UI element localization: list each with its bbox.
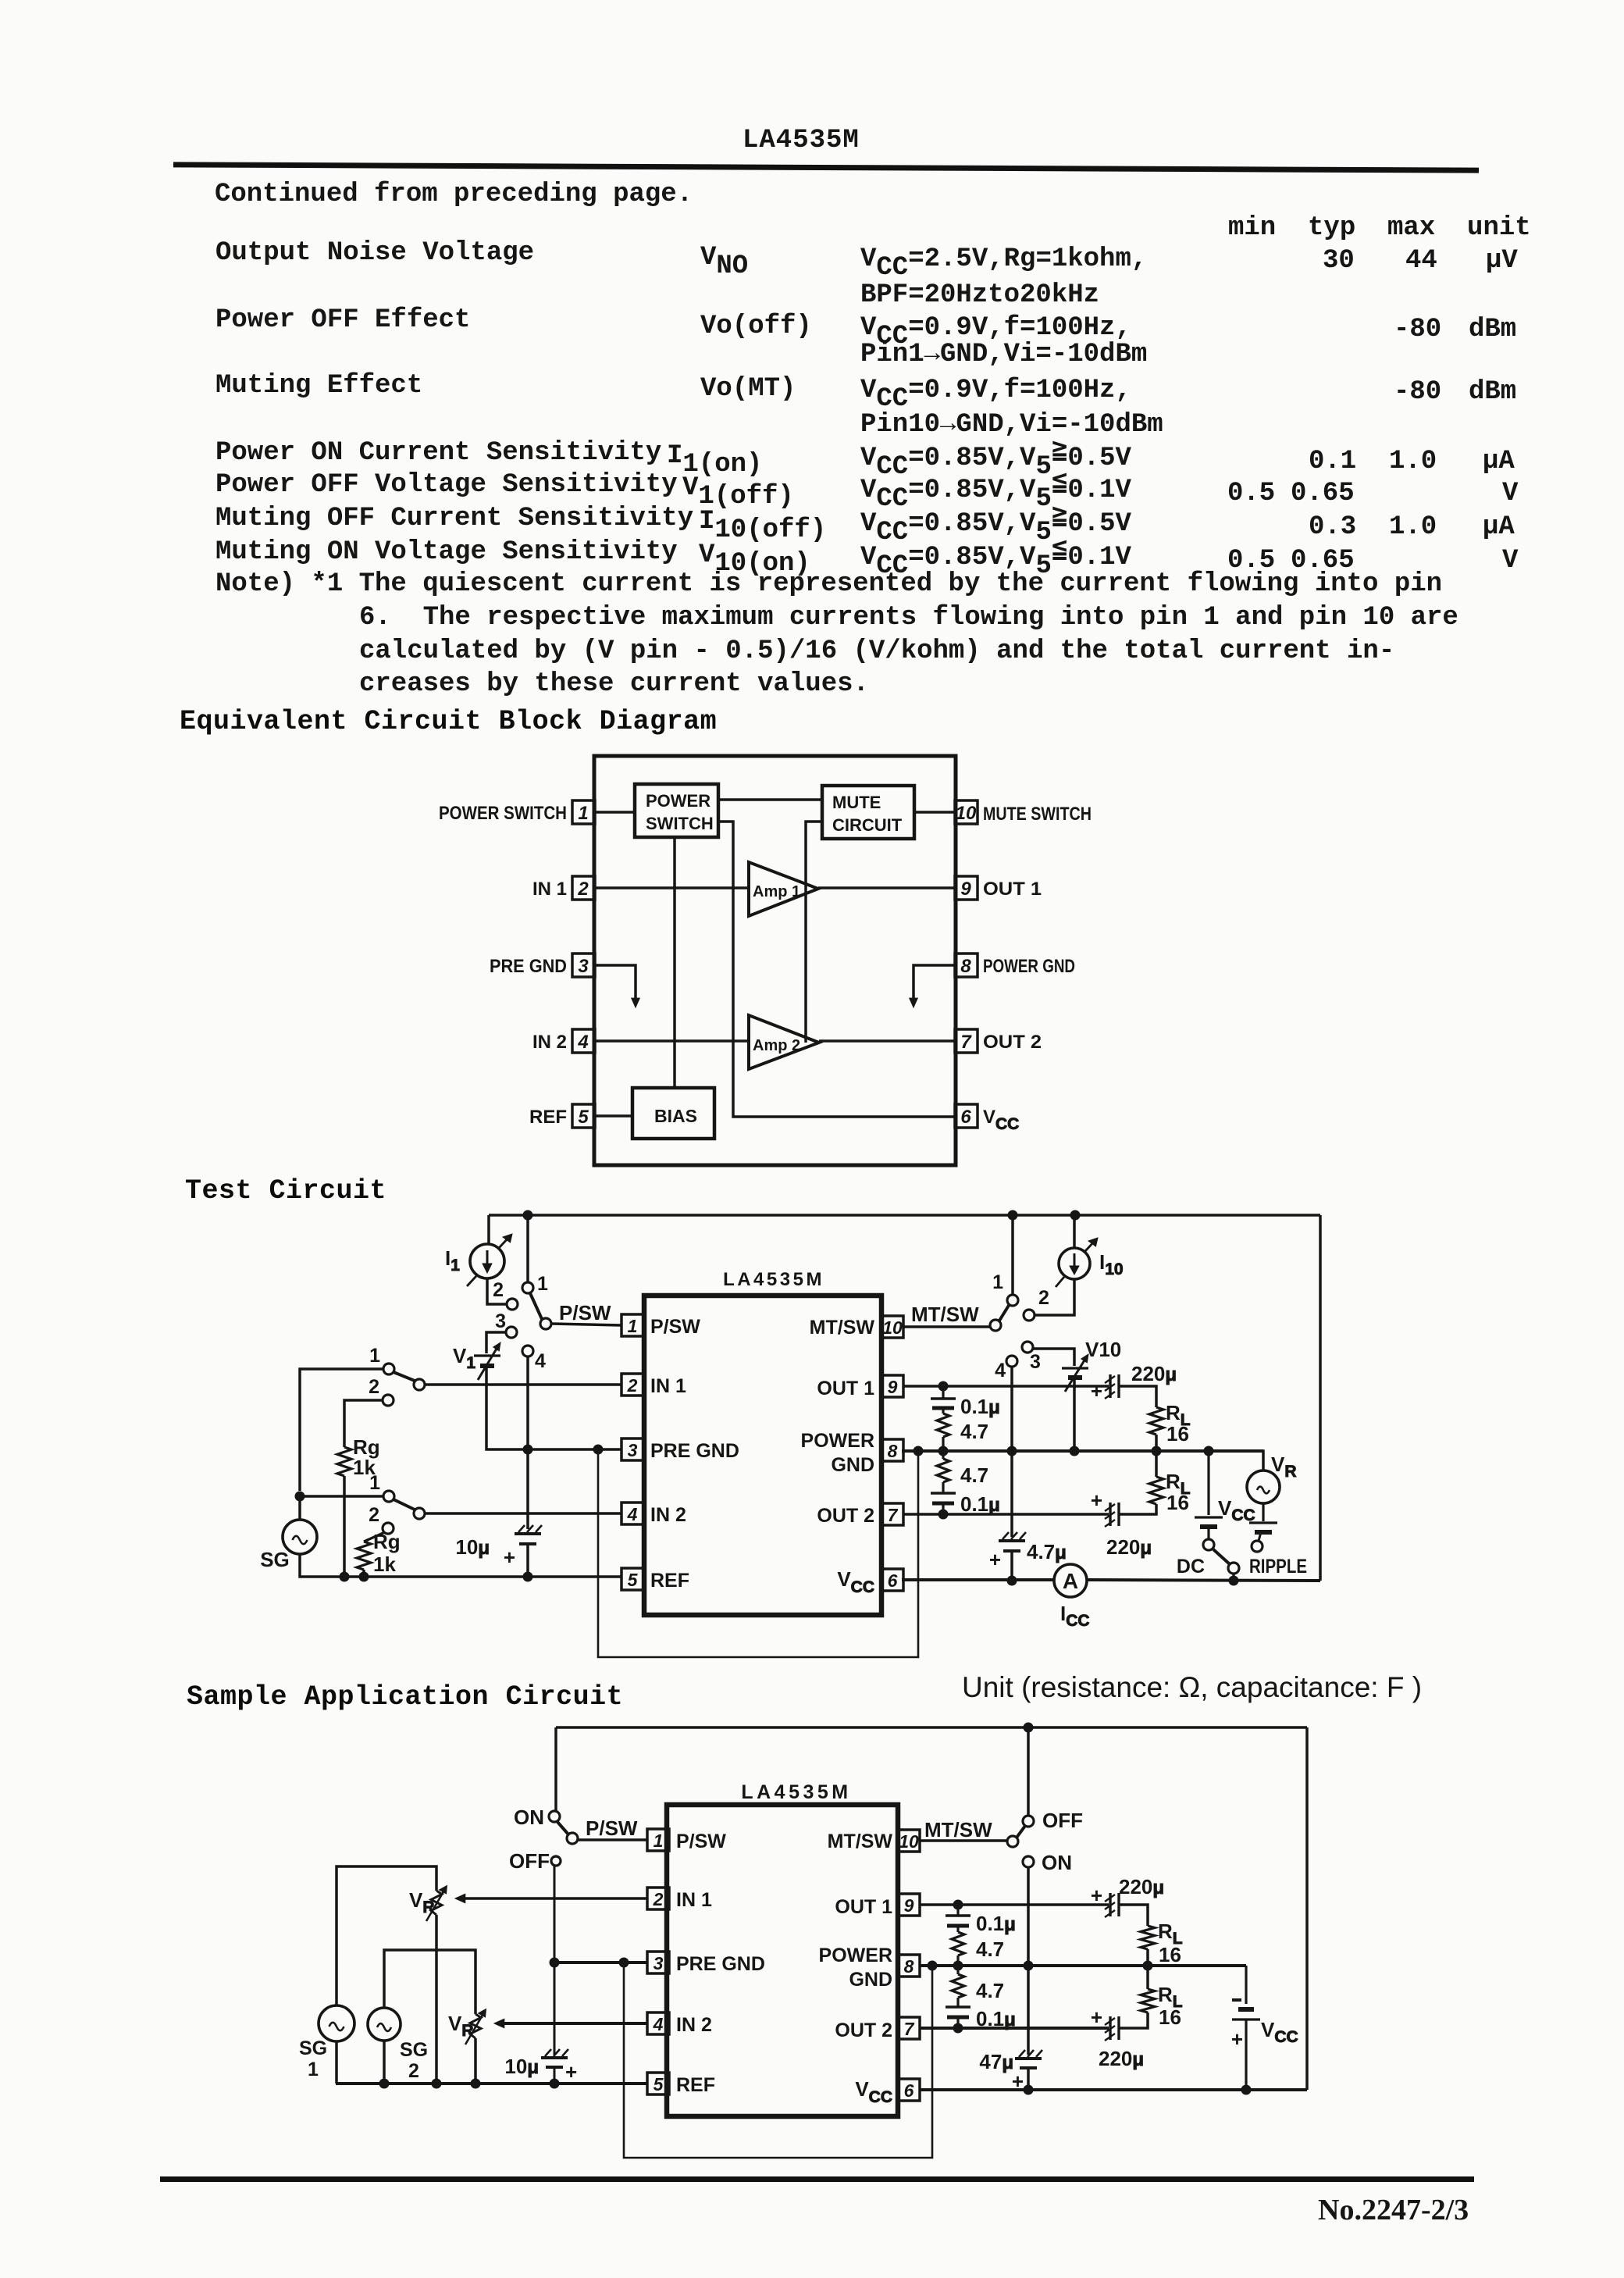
pin 2 — [572, 876, 595, 900]
svg-text:4: 4 — [653, 2014, 664, 2034]
svg-text:OFF: OFF — [1042, 1809, 1083, 1832]
svg-text:+: + — [1231, 2027, 1243, 2051]
wire POWER SWITCH to Vcc line — [718, 822, 956, 1117]
pin 5 REF — [647, 2073, 715, 2096]
potentiometer VR1 — [426, 1886, 447, 1922]
junction — [1152, 1446, 1161, 1456]
pin 2 IN 1 — [647, 1888, 712, 1911]
wire Rg to rail — [343, 1476, 346, 1577]
junction — [1204, 1446, 1213, 1456]
pin 7 — [881, 1503, 903, 1525]
junction — [913, 1446, 923, 1456]
resistor 4.7 — [952, 1926, 1004, 1966]
svg-text:IN 1: IN 1 — [676, 1889, 712, 1911]
wire cap to RL1 — [1119, 1905, 1148, 1926]
wire RL1 to POWER GND — [1146, 1949, 1149, 1966]
wire junction to SG — [298, 1496, 301, 1520]
wire right rail — [1305, 1727, 1309, 2090]
svg-text:10μ: 10μ — [504, 2055, 539, 2078]
junction — [432, 2079, 441, 2088]
junction — [1024, 2085, 1033, 2094]
wire OUT1 — [920, 1903, 1109, 1906]
ground arrow pin8 — [910, 965, 956, 1007]
wire POWER SWITCH to BIAS — [673, 837, 676, 1088]
capacitor 220u lower — [1091, 1488, 1152, 1559]
junction — [359, 1572, 369, 1581]
terminal ON — [549, 1811, 560, 1822]
switch terminal 2 — [1024, 1310, 1035, 1321]
capacitor 10u — [504, 2049, 577, 2084]
svg-text:MT/SW: MT/SW — [828, 1831, 893, 1852]
resistor Rg 1k — [337, 1435, 380, 1479]
wire pin1 to POWER SWITCH — [594, 811, 635, 814]
wire battery to VCC rail — [1245, 2020, 1247, 2090]
capacitor 220u lower — [1091, 2005, 1144, 2070]
wire RL to POWER GND — [1155, 1435, 1158, 1451]
svg-text:1: 1 — [654, 1831, 664, 1851]
svg-text:P/SW: P/SW — [676, 1831, 726, 1852]
pin 8 — [881, 1439, 903, 1461]
wire ON down — [1027, 1867, 1030, 2055]
svg-text:OFF: OFF — [509, 1849, 550, 1873]
switch SW1 terminal 2 — [383, 1395, 394, 1406]
wire POWER GND to battery — [1245, 1966, 1247, 2004]
svg-text:+: + — [565, 2060, 577, 2084]
ground arrow pin3 — [594, 965, 639, 1007]
source SG — [283, 1520, 317, 1554]
junction — [619, 1958, 629, 1967]
resistor 4.7 lower — [952, 1966, 1004, 2002]
wire pin4 to Amp2 — [594, 1039, 749, 1043]
pin 1 — [572, 800, 595, 824]
resistor 4.7 lower — [937, 1451, 988, 1487]
wire pin10 to MT/SW — [903, 1325, 990, 1328]
wire VR1 to REF — [435, 1915, 438, 2084]
junction — [550, 1958, 559, 1967]
wire terminal1 to junction — [300, 1495, 383, 1498]
resistor RL2 16 — [1149, 1470, 1191, 1514]
wire SG1 bottom — [335, 2041, 338, 2084]
resistor Rg2 1k — [357, 1530, 401, 1576]
wire pin10 to MT/SW — [920, 1839, 1007, 1842]
meter I1 — [467, 1234, 512, 1286]
pin 2 IN 1 — [621, 1374, 686, 1397]
wire MUTE CIRCUIT to pin10 — [914, 811, 956, 814]
svg-text:REF: REF — [676, 2074, 715, 2096]
svg-text:7: 7 — [904, 2019, 915, 2039]
pin 4 — [572, 1029, 595, 1053]
wire terminal1 to rail — [526, 1215, 529, 1282]
op-amp Amp 2 — [749, 1015, 819, 1069]
junction — [1008, 1210, 1017, 1220]
wire switch to VCC rail — [1232, 1574, 1234, 1581]
svg-text:5: 5 — [654, 2074, 664, 2094]
wire OUT2 — [920, 2027, 1109, 2030]
svg-text:2: 2 — [653, 1889, 664, 1909]
svg-text:1: 1 — [308, 2059, 319, 2080]
wire RL2 to POWER GND — [1155, 1451, 1158, 1477]
pin 1 P/SW — [621, 1314, 700, 1338]
junction — [1070, 1446, 1079, 1456]
pin 3 — [572, 954, 595, 977]
wire right rail — [1319, 1215, 1322, 1581]
pin 4 IN 2 — [647, 2012, 712, 2036]
wire terminal4 down — [526, 1356, 529, 1529]
svg-text:OUT 2: OUT 2 — [835, 2020, 892, 2041]
wire terminal4 down — [1010, 1367, 1013, 1537]
pin 7 — [955, 1029, 978, 1053]
junction — [953, 1900, 963, 1909]
source SG2 — [368, 2008, 401, 2041]
wire SG2 bottom — [383, 2041, 386, 2084]
pin 5 REF — [621, 1568, 689, 1592]
svg-text:4.7: 4.7 — [976, 1938, 1004, 1961]
svg-text:+: + — [1091, 1884, 1102, 1907]
wire under-IC loop — [624, 1963, 932, 2158]
block MUTE CIRCUIT — [822, 786, 914, 839]
pin 8 — [955, 954, 978, 977]
IC U1 LA4535M — [644, 1296, 881, 1615]
pin 6 — [881, 1569, 903, 1591]
svg-text:+: + — [1091, 2005, 1102, 2029]
wire common to pin1 — [578, 1838, 647, 1841]
svg-text:220μ: 220μ — [1119, 1875, 1164, 1898]
wire top rail — [556, 1726, 1307, 1729]
capacitor 0.1u lower — [931, 1482, 1000, 1516]
terminal OFF — [1023, 1816, 1034, 1827]
junction — [1007, 1446, 1017, 1456]
svg-text:IN 2: IN 2 — [676, 2014, 712, 2036]
junction — [1024, 1723, 1033, 1732]
junction — [379, 2079, 389, 2088]
wire IN2 — [501, 2022, 647, 2025]
pin 1 P/SW — [647, 1829, 726, 1852]
junction — [1070, 1210, 1080, 1220]
wire cap to RL2 — [1119, 2012, 1148, 2028]
junction — [938, 1446, 948, 1456]
IC U1 LA4535M sample — [667, 1805, 898, 2116]
pin 9 — [955, 876, 978, 900]
junction — [295, 1492, 304, 1501]
wire Amp1 to pin9 — [818, 886, 956, 889]
svg-text:0.1μ: 0.1μ — [976, 1912, 1016, 1935]
pin 9 — [881, 1375, 903, 1397]
wire rail to I1 — [487, 1215, 490, 1245]
pin 8 — [898, 1955, 920, 1977]
wire terminal1 to rail — [1011, 1215, 1014, 1295]
battery RIPPLE — [1249, 1503, 1277, 1532]
junction — [938, 1381, 948, 1391]
wire pin5 to BIAS — [594, 1114, 632, 1118]
capacitor 47u — [979, 2050, 1042, 2093]
svg-text:47μ: 47μ — [979, 2050, 1013, 2073]
pin 10 — [955, 800, 978, 824]
wire OFF vertical — [554, 1866, 556, 2055]
switch terminal 4 — [522, 1346, 533, 1356]
junction — [340, 1572, 349, 1581]
switch P/SW terminal 2 — [507, 1299, 518, 1310]
svg-text:GND: GND — [849, 1969, 892, 1991]
junction — [1229, 1576, 1238, 1585]
wire POWER SWITCH to MUTE CIRCUIT — [718, 798, 822, 801]
svg-text:10: 10 — [899, 1831, 919, 1852]
switch P/SW common — [567, 1833, 578, 1844]
junction — [928, 1961, 937, 1970]
svg-text:4.7: 4.7 — [976, 1979, 1004, 2002]
resistor RL1 16 — [1141, 1920, 1183, 1966]
wire terminal3 to V1 — [486, 1332, 506, 1353]
svg-text:220μ: 220μ — [1099, 2047, 1144, 2070]
wire Amp2 to pin7 — [819, 1039, 956, 1043]
wire OUT2 — [903, 1513, 1109, 1516]
IC outer box — [594, 756, 956, 1165]
op-amp Amp 1 — [749, 862, 818, 916]
wire OUT1 — [903, 1385, 1109, 1388]
capacitor 220u — [1091, 1362, 1177, 1403]
svg-text:16: 16 — [1159, 2005, 1181, 2029]
resistor 4.7 — [937, 1408, 988, 1451]
switch DC/RIPPLE — [1228, 1563, 1239, 1574]
junction — [471, 2079, 480, 2088]
switch P/SW terminal 1 — [522, 1282, 533, 1293]
meter VR — [1247, 1471, 1280, 1503]
wire SG1 top loop — [337, 1866, 436, 2005]
wire cap to RL — [1119, 1386, 1156, 1407]
source SG1 — [319, 2005, 354, 2041]
pin 3 PRE GND — [621, 1438, 739, 1462]
capacitor 220u — [1091, 1875, 1164, 1917]
wire terminal2 to Rg — [344, 1400, 383, 1447]
junction — [523, 1572, 532, 1581]
junction — [1024, 1961, 1033, 1970]
svg-text:9: 9 — [904, 1895, 914, 1916]
switch P/SW common — [540, 1318, 551, 1329]
switch SW1 common — [414, 1379, 425, 1390]
wire terminal3 to V10 — [1033, 1349, 1074, 1366]
capacitor 0.1u — [946, 1905, 1016, 1935]
junction — [1007, 1576, 1017, 1585]
wire SG2 top loop — [384, 1950, 475, 2014]
potentiometer VR2 — [465, 2009, 486, 2045]
pin 5 — [572, 1104, 595, 1128]
pin 3 PRE GND — [647, 1952, 765, 1975]
meter ICC A — [1054, 1564, 1087, 1597]
wire SG to REF rail — [300, 1554, 621, 1577]
terminal RIPPLE — [1259, 1532, 1261, 1541]
capacitor 10u — [455, 1525, 542, 1569]
wire OFF to rail — [1027, 1727, 1030, 1816]
capacitor 0.1u lower — [946, 1998, 1016, 2030]
wire IN1 — [462, 1897, 647, 1900]
wire terminal2 to Rg2 — [364, 1532, 385, 1542]
svg-text:6: 6 — [904, 2080, 914, 2101]
terminal ON — [1023, 1856, 1034, 1867]
wire POWER GND — [919, 1964, 1246, 1967]
pin 10 — [881, 1316, 903, 1338]
switch terminal 3 — [1022, 1342, 1033, 1353]
junction — [953, 1961, 963, 1970]
svg-text:OUT 1: OUT 1 — [835, 1896, 892, 1918]
switch MT/SW common — [990, 1320, 1001, 1331]
capacitor V10 — [1062, 1354, 1088, 1392]
wire VCC rail right — [1087, 1580, 1320, 1581]
battery VCC — [1231, 2000, 1298, 2051]
wire 47u to VCC — [1027, 2068, 1030, 2090]
pin 6 — [955, 1104, 978, 1128]
switch SW1 terminal 1 — [383, 1364, 394, 1374]
svg-text:8: 8 — [904, 1956, 914, 1977]
junction — [953, 2023, 963, 2033]
svg-text:2: 2 — [408, 2060, 419, 2082]
svg-text:VCC: VCC — [855, 2077, 892, 2106]
svg-text:MT/SW: MT/SW — [924, 1818, 992, 1841]
wire VCC rail — [902, 1578, 1054, 1581]
wire SW2 to pin4 IN2 — [425, 1512, 621, 1515]
wire pin2 to Amp1 — [594, 886, 749, 889]
junction — [523, 1445, 532, 1454]
wire terminal2 to I10 — [1035, 1280, 1074, 1315]
wire Rg2 to rail — [362, 1570, 365, 1577]
wire top rail — [489, 1214, 1320, 1217]
svg-text:SG: SG — [400, 2039, 428, 2061]
svg-text:P/SW: P/SW — [586, 1816, 638, 1840]
svg-text:ON: ON — [1042, 1851, 1072, 1874]
svg-text:VCC: VCC — [1261, 2018, 1298, 2046]
junction — [938, 1510, 948, 1519]
wire 10u to REF rail — [526, 1544, 529, 1577]
wire common to pin1 — [551, 1324, 621, 1325]
svg-text:SG: SG — [299, 2037, 327, 2059]
wire MUTE CIRCUIT down — [806, 822, 822, 1043]
wire rail to ON — [554, 1727, 557, 1811]
resistor RL2 16 — [1141, 1983, 1183, 2029]
switch terminal 1 — [1007, 1295, 1018, 1306]
switch SW2 terminal 1 — [383, 1491, 394, 1502]
wire under-IC loop — [598, 1449, 918, 1657]
resistor RL 16 — [1149, 1401, 1191, 1446]
svg-text:VR: VR — [409, 1888, 435, 1916]
svg-text:LA4535M: LA4535M — [741, 1781, 851, 1803]
wire cap to RL2 — [1119, 1504, 1156, 1514]
switch terminal 4 — [1006, 1356, 1017, 1367]
switch SW2 terminal 2 — [383, 1523, 394, 1534]
wire V10 to POWER GND — [1073, 1380, 1076, 1451]
svg-text:VR: VR — [448, 2012, 474, 2040]
pin 10 — [898, 1830, 920, 1852]
switch SW2 common — [414, 1508, 425, 1519]
junction — [1241, 2085, 1251, 2094]
wire VR2 to REF — [474, 2038, 477, 2084]
wire REF rail — [336, 2082, 647, 2085]
wire 4.7u to VCC rail — [1010, 1551, 1013, 1581]
capacitor V1 — [474, 1342, 500, 1380]
junction — [593, 1445, 603, 1454]
junction — [1143, 1961, 1152, 1970]
wire I1 to terminal 2 — [487, 1278, 507, 1304]
wire VCC rail — [919, 2088, 1307, 2091]
pin 6 — [898, 2079, 920, 2101]
svg-text:POWER: POWER — [819, 1945, 892, 1966]
junction — [523, 1210, 532, 1220]
terminal DC — [1207, 1527, 1209, 1539]
svg-text:3: 3 — [654, 1953, 664, 1973]
block POWER SWITCH — [635, 784, 718, 837]
wire I10 to rail — [1073, 1215, 1076, 1248]
wire POWER GND — [902, 1449, 1263, 1453]
pin 7 — [898, 2017, 920, 2039]
block BIAS — [632, 1088, 714, 1139]
wire terminal1 left — [300, 1369, 383, 1491]
svg-text:PRE GND: PRE GND — [676, 1953, 765, 1975]
wire RL2 to POWER GND — [1146, 1966, 1149, 1989]
wire SW1 to pin2 IN1 — [425, 1383, 621, 1386]
wire 10u to REF — [554, 2067, 556, 2084]
pin 9 — [898, 1894, 920, 1916]
switch MT/SW common — [1007, 1836, 1018, 1847]
svg-text:ON: ON — [514, 1806, 544, 1829]
meter I10 — [1056, 1238, 1098, 1287]
switch terminal 3 — [506, 1327, 517, 1338]
wire to VR — [1209, 1451, 1263, 1471]
capacitor 0.1u — [931, 1386, 1000, 1418]
capacitor 4.7u — [989, 1532, 1067, 1571]
wire PRE GND — [554, 1961, 647, 1964]
wire V1 to PRE GND — [486, 1368, 621, 1449]
pin 4 IN 2 — [621, 1503, 686, 1526]
battery VCC — [1195, 1451, 1255, 1527]
junction — [550, 2079, 559, 2088]
svg-text:16: 16 — [1159, 1943, 1181, 1966]
